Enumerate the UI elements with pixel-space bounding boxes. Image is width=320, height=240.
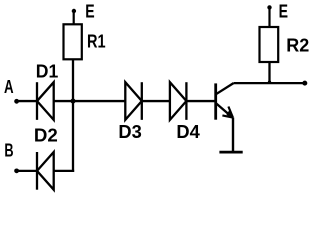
wire R1 bottom through junction down to D2 corner <box>72 59 74 172</box>
svg-text:A: A <box>4 77 14 97</box>
wire D1 anode to D3 <box>54 100 126 102</box>
wire D3 to D4 <box>142 100 170 102</box>
wire D2 anode to junction corner <box>54 170 74 172</box>
svg-text:B: B <box>4 141 13 161</box>
diode D3 <box>125 82 142 120</box>
svg-text:D4: D4 <box>176 122 199 142</box>
svg-text:E: E <box>279 1 288 21</box>
input node A <box>14 99 37 104</box>
svg-text:R2: R2 <box>286 36 309 56</box>
wire collector to output <box>234 82 305 84</box>
diode D1 <box>37 82 54 120</box>
svg-text:E: E <box>85 2 94 22</box>
ground <box>219 151 242 154</box>
transistor Q1 <box>216 83 234 120</box>
wire R2 bottom to collector line <box>268 62 270 83</box>
output node dot <box>302 81 307 86</box>
wire emitter down <box>232 118 234 153</box>
resistor R2 <box>260 27 279 62</box>
junction flare collector/R2 <box>268 81 271 84</box>
diode D2 <box>37 152 54 190</box>
junction dot <box>71 99 76 104</box>
svg-text:D3: D3 <box>118 122 141 142</box>
wire D4 to transistor base <box>186 100 214 102</box>
node E (left supply terminal) <box>72 9 76 24</box>
resistor R1 <box>64 24 82 59</box>
svg-text:D2: D2 <box>34 125 58 145</box>
input node B <box>14 168 37 173</box>
diode D4 <box>170 82 187 120</box>
svg-text:R1: R1 <box>87 32 106 52</box>
svg-text:D1: D1 <box>36 62 59 82</box>
node E (right supply terminal) <box>267 5 271 27</box>
